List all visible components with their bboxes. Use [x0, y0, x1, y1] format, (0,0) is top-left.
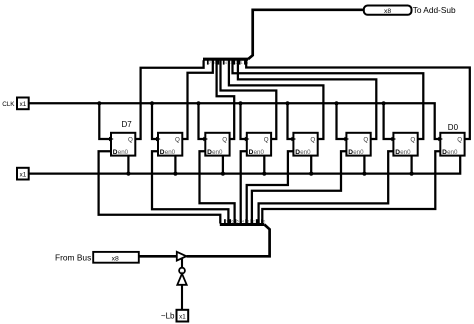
wire en stub FF4: [263, 156, 265, 174]
svg-text:0: 0: [263, 220, 265, 224]
junction CLK: [97, 101, 101, 105]
svg-text:x1: x1: [20, 171, 27, 178]
svg-text:Q: Q: [410, 136, 415, 143]
svg-text:en0: en0: [118, 149, 129, 156]
svg-text:x8: x8: [384, 8, 391, 15]
svg-text:x1: x1: [20, 101, 27, 108]
svg-text:1: 1: [241, 61, 243, 65]
wire D FF5 from splitter: [247, 151, 294, 223]
svg-text:CLK: CLK: [2, 101, 15, 108]
junction CLK: [238, 101, 242, 105]
flip-flop FF7 (bit 1): [391, 133, 417, 156]
flip-flop FF2 (bit 6): [156, 133, 182, 156]
wire clock drop FF1: [99, 103, 111, 139]
wire D FF3 from splitter: [200, 151, 235, 223]
svg-text:Q: Q: [310, 136, 315, 143]
junction CLK: [382, 101, 386, 105]
wire D FF1 from splitter: [99, 151, 221, 223]
splitter S2 leg 1: [256, 219, 258, 223]
wire bus to To Add-Sub: [248, 10, 364, 59]
svg-text:en0: en0: [353, 149, 364, 156]
wire en stub FF1: [127, 156, 129, 174]
svg-text:Q: Q: [363, 136, 368, 143]
wire clock drop FF5: [288, 103, 294, 139]
splitter S2 leg 3: [245, 219, 247, 223]
svg-text:en0: en0: [165, 149, 176, 156]
junction en: [262, 172, 266, 176]
flip-flop FF4 (bit 4): [245, 133, 271, 156]
svg-text:en0: en0: [254, 149, 265, 156]
wire Q FF4 to splitter: [221, 60, 277, 139]
junction en: [126, 172, 130, 176]
wire Q FF3 to splitter: [217, 60, 235, 139]
wire clock drop FF2: [152, 103, 158, 139]
svg-text:en0: en0: [400, 149, 411, 156]
svg-text:To Add-Sub: To Add-Sub: [413, 5, 456, 15]
svg-text:From Bus: From Bus: [55, 252, 91, 262]
svg-text:Q: Q: [128, 136, 133, 143]
svg-text:Q: Q: [222, 136, 227, 143]
tri-state buffer U1: [177, 252, 187, 261]
wire Q FF5 to splitter: [229, 60, 324, 139]
svg-text:7: 7: [209, 61, 211, 65]
wire D FF6 from splitter: [252, 151, 347, 223]
flip-flop FF8 (bit 0): [438, 133, 464, 156]
wire en stub FF2: [174, 156, 176, 174]
wire From Bus to buffer: [139, 255, 177, 258]
splitter S1 leg 0: [244, 60, 246, 64]
svg-text:D7: D7: [122, 120, 133, 129]
input pin ~Lb x1: [177, 310, 189, 322]
junction en: [309, 172, 313, 176]
junction CLK: [285, 101, 289, 105]
wire en stub FF5: [310, 156, 312, 174]
wire en rail: [29, 156, 461, 174]
svg-text:D0: D0: [448, 123, 459, 132]
splitter S2 leg 7: [224, 219, 226, 223]
svg-text:6: 6: [231, 220, 233, 224]
svg-text:~Lb: ~Lb: [161, 312, 175, 321]
splitter S2 (D bus x8): [220, 223, 264, 226]
wire en stub FF7: [410, 156, 412, 174]
input pin CLK x1: [17, 98, 29, 110]
splitter S2 leg 4: [240, 219, 242, 223]
splitter S1 leg 3: [228, 60, 230, 64]
splitter S2 leg 5: [235, 219, 237, 223]
splitter S2 leg 0: [261, 219, 263, 223]
svg-text:5: 5: [237, 220, 239, 224]
output pin To Add-Sub x8: [364, 6, 412, 15]
svg-text:4: 4: [242, 220, 244, 224]
wire clock drop FF3: [199, 103, 206, 139]
wire Q FF6 to splitter: [238, 60, 376, 139]
junction en: [221, 172, 225, 176]
splitter S1 leg 7: [207, 60, 209, 64]
wire D FF7 from splitter: [259, 151, 394, 223]
junction en: [410, 172, 414, 176]
flip-flop FF6 (bit 2): [344, 133, 370, 156]
wire buffer enable stub: [181, 259, 183, 268]
junction en: [173, 172, 177, 176]
splitter S1 leg 5: [217, 60, 219, 64]
junction CLK: [334, 101, 338, 105]
junction en: [362, 172, 366, 176]
flip-flop FF1 (bit 7): [109, 133, 135, 156]
wire D FF4 from splitter: [241, 151, 247, 223]
wire CLK rail: [29, 103, 441, 139]
splitter S1 (Q bus x8): [203, 58, 248, 61]
splitter S2 leg 6: [229, 219, 231, 223]
svg-text:Q: Q: [264, 136, 269, 143]
wire clock drop FF4: [241, 103, 247, 139]
svg-text:x8: x8: [112, 255, 119, 262]
wire Q FF2 to splitter: [182, 60, 213, 139]
wire clock drop FF6: [337, 103, 347, 139]
splitter S1 leg 4: [223, 60, 225, 64]
junction CLK: [150, 101, 154, 105]
flip-flop FF3 (bit 5): [203, 133, 229, 156]
splitter S2 leg 2: [250, 219, 252, 223]
wire en stub FF6: [363, 156, 365, 174]
svg-text:4: 4: [225, 61, 227, 65]
inverter U2 (NOT gate): [179, 268, 185, 274]
input pin From Bus x8: [93, 252, 139, 263]
junction CLK: [196, 101, 200, 105]
svg-text:Q: Q: [175, 136, 180, 143]
input pin x1 (load enable): [17, 168, 29, 180]
splitter S1 leg 2: [233, 60, 235, 64]
splitter S1 leg 6: [212, 60, 214, 64]
wire en stub FF3: [222, 156, 224, 174]
wire D FF2 from splitter: [152, 151, 228, 223]
svg-text:en0: en0: [212, 149, 223, 156]
wire Q FF7 to splitter: [233, 60, 424, 139]
wire bus splitter to buffer: [187, 225, 270, 257]
svg-text:x1: x1: [179, 313, 186, 320]
splitter S1 leg 1: [239, 60, 241, 64]
wire Q FF8 to splitter: [246, 60, 470, 139]
svg-text:en0: en0: [447, 149, 458, 156]
wire Q FF1 to splitter: [135, 60, 203, 139]
svg-text:Q: Q: [457, 136, 462, 143]
wire D FF8 from splitter: [262, 151, 440, 223]
wire clock drop FF7: [384, 103, 394, 139]
flip-flop FF5 (bit 3): [291, 133, 317, 156]
svg-text:en0: en0: [300, 149, 311, 156]
wire ~Lb to inverter: [181, 285, 183, 310]
